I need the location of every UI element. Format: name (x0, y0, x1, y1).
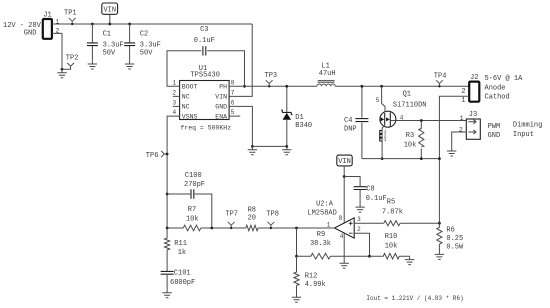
svg-text:TP1: TP1 (64, 9, 77, 17)
svg-text:TP3: TP3 (265, 72, 278, 80)
svg-text:7: 7 (231, 90, 235, 97)
svg-text:D1: D1 (295, 114, 303, 122)
svg-text:4: 4 (400, 114, 404, 121)
svg-text:2: 2 (357, 226, 361, 233)
node C8 tap junction (343, 175, 346, 178)
svg-text:4: 4 (172, 109, 176, 116)
svg-text:R8: R8 (248, 207, 256, 215)
svg-text:C4: C4 (344, 117, 352, 125)
svg-text:C1: C1 (103, 30, 111, 38)
svg-text:6800pF: 6800pF (170, 279, 195, 287)
wire U1 GND pin to ground (229, 106, 252, 146)
node R3 top junction (420, 119, 423, 122)
svg-text:7.87k: 7.87k (382, 208, 403, 216)
svg-text:3.3uF: 3.3uF (140, 41, 161, 49)
Q1 inner symbol (385, 112, 391, 126)
svg-text:VIN: VIN (338, 158, 351, 166)
testpoint TP1 (69, 18, 76, 24)
svg-text:270pF: 270pF (184, 181, 205, 189)
svg-text:Dimming: Dimming (513, 122, 542, 130)
svg-text:2: 2 (172, 90, 176, 97)
svg-text:LM258AD: LM258AD (307, 210, 336, 218)
svg-text:U2:A: U2:A (316, 200, 334, 208)
svg-text:50V: 50V (140, 49, 153, 57)
ground under C101 (162, 289, 171, 297)
svg-text:5-6V @ 1A: 5-6V @ 1A (485, 75, 524, 83)
wire PH rail (229, 85, 469, 87)
svg-text:B340: B340 (295, 122, 312, 130)
svg-text:C101: C101 (174, 270, 191, 278)
resistor R9 (297, 253, 370, 259)
svg-text:3: 3 (357, 216, 361, 223)
testpoint TP6 (161, 151, 167, 157)
svg-text:DNP: DNP (344, 126, 357, 134)
svg-text:8: 8 (339, 215, 343, 222)
testpoint TP4 (436, 80, 443, 86)
capacitor C8 (344, 177, 360, 204)
capacitor C3 (203, 46, 206, 55)
wire VIN rail down to U1 pin7 (229, 24, 252, 96)
svg-text:Iout = 1.221V / (4.83 * R6): Iout = 1.221V / (4.83 * R6) (366, 295, 463, 302)
wire VSNS feedback down (167, 116, 180, 228)
Q1 gate wire to J3 (390, 120, 466, 122)
testpoint TP8 (268, 222, 275, 228)
svg-text:50V: 50V (103, 49, 116, 57)
transistor Q1 SI7110DN (380, 111, 396, 127)
op IC U1 TPS5430 box (180, 81, 230, 120)
node dot R9 branch (295, 227, 298, 230)
svg-text:BOOT: BOOT (182, 84, 198, 91)
ground under C2 (125, 61, 134, 69)
wire VIN symbol to rail (109, 14, 111, 24)
ground under R6 (435, 251, 444, 259)
svg-text:TP4: TP4 (434, 73, 447, 81)
svg-text:20: 20 (248, 215, 256, 223)
J2 pin 1 wire down to sense node (439, 96, 469, 223)
svg-text:VIN: VIN (103, 6, 116, 14)
capacitor C4 (DNP) (361, 86, 363, 158)
resistor R11 (165, 228, 170, 271)
svg-text:3.3uF: 3.3uF (103, 41, 124, 49)
svg-text:C3: C3 (200, 26, 208, 34)
node D1 cathode junction (285, 85, 288, 88)
node R9/R12 junction (295, 255, 298, 258)
svg-text:R12: R12 (305, 272, 318, 280)
svg-text:1: 1 (384, 137, 387, 143)
ground at TP2 (57, 69, 66, 77)
svg-text:PWM: PWM (488, 123, 501, 131)
svg-text:R9: R9 (317, 231, 325, 239)
resistor R10 (370, 253, 410, 259)
diode D1 B340 (286, 86, 288, 146)
svg-text:1: 1 (460, 115, 464, 122)
svg-text:5: 5 (231, 109, 235, 116)
svg-text:PH: PH (219, 84, 227, 91)
svg-text:Q1: Q1 (403, 91, 411, 99)
node dot C1 tap (91, 23, 94, 26)
svg-text:1: 1 (172, 79, 176, 86)
U1 NC pin stubs (173, 96, 180, 106)
node C4 top junction (361, 85, 364, 88)
resistor R6 (437, 223, 442, 251)
wire J1 pin1 to VIN rail (52, 23, 252, 25)
wire source rail (362, 158, 440, 160)
inductor L1 (317, 84, 335, 86)
svg-text:0.1uF: 0.1uF (194, 37, 215, 45)
wire main feedback rail (167, 227, 334, 229)
svg-text:GND: GND (24, 29, 37, 37)
wire Q1 drain lead (382, 86, 385, 112)
svg-text:4: 4 (340, 233, 344, 240)
svg-text:5: 5 (376, 97, 380, 104)
power symbol VIN top (102, 3, 118, 14)
svg-text:R3: R3 (406, 132, 414, 140)
wire ground row to D1 (252, 145, 286, 147)
svg-text:VSNS: VSNS (182, 113, 198, 120)
op-amp pin 2 wire down (354, 233, 369, 256)
svg-text:1k: 1k (178, 249, 186, 257)
ground under U1 GND (248, 146, 257, 154)
svg-text:GND: GND (488, 132, 501, 140)
node D1 anode junction (285, 145, 288, 148)
testpoint TP7 (228, 222, 235, 228)
svg-text:3: 3 (172, 100, 176, 107)
capacitor C1 (91, 24, 93, 61)
ground under C1 (88, 61, 97, 69)
testpoint TP2 (62, 63, 74, 69)
power symbol VIN lower (337, 155, 352, 166)
connector J3 (466, 119, 480, 139)
svg-text:47uH: 47uH (319, 70, 336, 78)
svg-text:0.25: 0.25 (446, 235, 463, 243)
svg-text:TP8: TP8 (266, 211, 279, 219)
svg-text:0.1uF: 0.1uF (366, 195, 387, 203)
svg-text:10k: 10k (186, 215, 199, 223)
svg-text:0.5W: 0.5W (446, 243, 464, 251)
connector J1 (43, 19, 52, 39)
ground after R10 (405, 256, 414, 264)
node R9/R10/pin2 junction (368, 255, 371, 258)
node source rail/cathode junction (438, 157, 441, 160)
svg-text:TPS5430: TPS5430 (190, 71, 219, 79)
svg-text:R11: R11 (174, 240, 187, 248)
svg-text:6: 6 (231, 100, 235, 107)
svg-text:Anode: Anode (485, 84, 506, 92)
svg-text:C2: C2 (140, 30, 148, 38)
svg-text:GND: GND (215, 104, 227, 111)
svg-text:Cathod: Cathod (485, 93, 510, 101)
svg-text:J3: J3 (469, 111, 477, 119)
node Q1 drain junction (380, 85, 383, 88)
svg-text:38.3k: 38.3k (310, 240, 331, 248)
node C3/PH junction (243, 85, 246, 88)
resistor R12 (294, 256, 299, 294)
J3 pin 2 wire to ground (452, 132, 467, 148)
op-amp pin 3 wire to R5 (354, 222, 439, 224)
svg-text:2: 2 (461, 88, 465, 96)
node C100/R7 junction (210, 227, 213, 230)
svg-text:C100: C100 (185, 172, 202, 180)
resistor R3 (419, 121, 424, 159)
svg-text:10k: 10k (404, 142, 417, 150)
node Q1 source junction (381, 157, 384, 160)
wire J1 pin2 down to ground (52, 33, 62, 69)
svg-text:freq = 500KHz: freq = 500KHz (180, 125, 231, 132)
svg-text:C8: C8 (366, 185, 374, 193)
node R5/R6 sense junction (438, 222, 441, 225)
Q1 source wire (382, 125, 385, 158)
wire BOOT loop to C3 (167, 51, 245, 87)
svg-text:ENA: ENA (215, 113, 227, 120)
wire R9 branch down (296, 228, 298, 256)
svg-text:Si7110DN: Si7110DN (393, 102, 427, 110)
svg-text:10k: 10k (385, 243, 398, 251)
svg-text:4.99k: 4.99k (305, 281, 326, 289)
node U1 GND junction (251, 145, 254, 148)
resistor R8 (246, 225, 258, 231)
ground under C8 (355, 204, 364, 212)
svg-text:TP2: TP2 (66, 54, 79, 62)
capacitor C100 (166, 193, 169, 196)
svg-text:1: 1 (327, 221, 331, 228)
node dot C2 tap (128, 23, 131, 26)
svg-text:J1: J1 (43, 11, 51, 19)
svg-text:1: 1 (461, 97, 465, 105)
svg-text:Input: Input (513, 131, 534, 139)
svg-text:R10: R10 (385, 233, 398, 241)
svg-text:8: 8 (231, 79, 235, 86)
svg-text:R5: R5 (387, 199, 395, 207)
capacitor C2 (129, 24, 131, 61)
resistor R5 (384, 221, 400, 226)
svg-text:J2: J2 (470, 74, 478, 82)
ground under R12 (292, 294, 301, 302)
svg-text:VIN: VIN (215, 94, 227, 101)
U1 ENA pin stub (229, 115, 240, 117)
node VSNS/R7/R11 junction (166, 227, 169, 230)
svg-text:R6: R6 (446, 227, 454, 235)
svg-text:NC: NC (182, 104, 190, 111)
svg-text:TP7: TP7 (225, 211, 238, 219)
svg-text:NC: NC (182, 94, 190, 101)
svg-text:TP6: TP6 (146, 152, 159, 160)
connector J2 (469, 82, 479, 102)
capacitor C101 (161, 271, 174, 274)
op-amp pin 4 to ground (343, 233, 345, 260)
ground under D1 (282, 146, 291, 154)
svg-text:R7: R7 (188, 206, 196, 214)
testpoint TP3 (266, 80, 273, 86)
resistor R7 (183, 225, 201, 231)
ground at J3 (447, 148, 456, 156)
node VIN tap junction (108, 23, 111, 26)
node R3 bottom junction (420, 157, 423, 160)
op-amp U2:A LM258AD (335, 218, 355, 238)
